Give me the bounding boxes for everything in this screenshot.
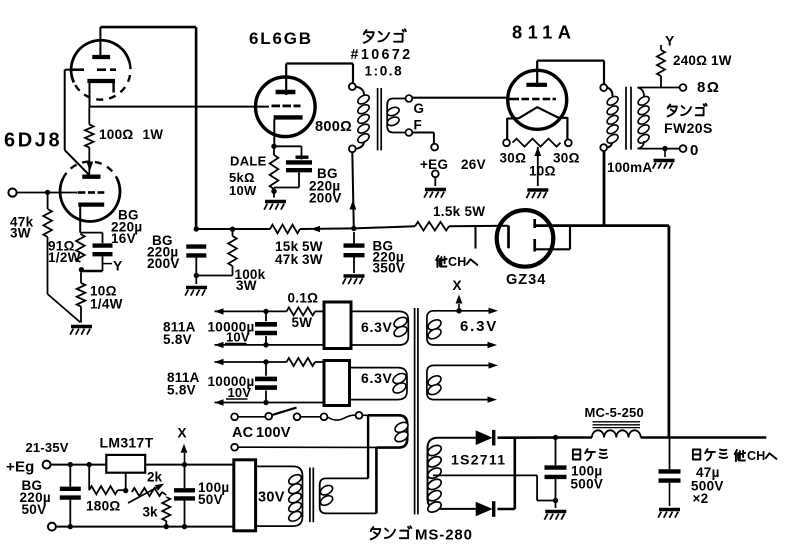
svg-text:30V: 30V [258, 490, 285, 506]
svg-text:3k: 3k [143, 505, 159, 520]
svg-text:5W: 5W [465, 204, 486, 219]
svg-text:×2: ×2 [693, 491, 709, 506]
svg-text:800Ω: 800Ω [315, 119, 352, 135]
svg-text:1/2W: 1/2W [48, 250, 81, 265]
svg-text:CH: CH [747, 449, 765, 463]
svg-text:811A: 811A [512, 22, 576, 43]
svg-text:F: F [414, 118, 422, 133]
svg-text:1/4W: 1/4W [90, 297, 123, 312]
svg-text:+Eg: +Eg [6, 459, 35, 476]
svg-text:1.5k: 1.5k [433, 204, 461, 219]
svg-text:100V: 100V [256, 425, 291, 441]
svg-text:6.3V: 6.3V [460, 318, 498, 335]
svg-text:5.8V: 5.8V [167, 383, 196, 398]
svg-text:10W: 10W [229, 183, 257, 198]
svg-text:50V: 50V [22, 502, 47, 517]
svg-text:350V: 350V [373, 261, 406, 276]
svg-text:200V: 200V [147, 256, 180, 271]
svg-text:10Ω: 10Ω [529, 164, 556, 179]
svg-text:G: G [414, 101, 425, 116]
svg-text:30Ω: 30Ω [553, 151, 580, 166]
svg-text:6L6GB: 6L6GB [249, 29, 313, 48]
svg-text:50V: 50V [198, 492, 223, 507]
svg-text:47k: 47k [275, 252, 299, 267]
svg-text:5.8V: 5.8V [163, 332, 192, 347]
svg-text:FW20S: FW20S [664, 120, 713, 136]
svg-text:6.3V: 6.3V [361, 370, 393, 386]
svg-text:3W: 3W [302, 252, 323, 267]
svg-text:16V: 16V [111, 231, 136, 246]
svg-text:MS-280: MS-280 [415, 527, 473, 544]
svg-text:30Ω: 30Ω [500, 151, 527, 166]
svg-text:0: 0 [690, 142, 698, 159]
svg-text:6DJ8: 6DJ8 [4, 130, 62, 152]
svg-text:3W: 3W [10, 226, 31, 241]
svg-text:LM317T: LM317T [100, 435, 154, 451]
svg-text:#10672: #10672 [351, 47, 413, 63]
svg-text:6.3V: 6.3V [361, 319, 393, 335]
svg-text:240Ω: 240Ω [673, 53, 707, 68]
svg-text:100mA: 100mA [607, 160, 652, 175]
svg-text:AC: AC [232, 425, 254, 441]
svg-text:3W: 3W [236, 278, 257, 293]
svg-text:Y: Y [113, 258, 123, 274]
svg-text:GZ34: GZ34 [506, 272, 546, 288]
svg-text:MC-5-250: MC-5-250 [585, 405, 644, 420]
svg-text:21-35V: 21-35V [26, 440, 69, 455]
svg-text:+EG: +EG [420, 157, 448, 172]
svg-text:8Ω: 8Ω [697, 79, 720, 96]
svg-text:100Ω: 100Ω [99, 127, 134, 142]
svg-text:0.1Ω: 0.1Ω [288, 291, 319, 306]
svg-text:500V: 500V [571, 477, 604, 492]
svg-text:1:0.8: 1:0.8 [365, 64, 404, 79]
svg-text:Y: Y [665, 33, 675, 49]
svg-text:X: X [453, 278, 462, 293]
svg-text:1W: 1W [711, 53, 732, 68]
svg-text:200V: 200V [309, 191, 342, 206]
svg-text:CH: CH [448, 255, 466, 269]
svg-text:1W: 1W [143, 127, 164, 142]
svg-text:10V: 10V [226, 330, 250, 345]
svg-text:26V: 26V [461, 157, 486, 172]
svg-text:10V: 10V [228, 385, 252, 400]
svg-text:DALE: DALE [230, 154, 267, 169]
svg-text:2k: 2k [147, 470, 163, 485]
svg-text:5W: 5W [292, 315, 313, 330]
svg-text:180Ω: 180Ω [86, 499, 121, 514]
svg-text:X: X [178, 426, 187, 441]
svg-text:1S2711: 1S2711 [451, 452, 506, 468]
